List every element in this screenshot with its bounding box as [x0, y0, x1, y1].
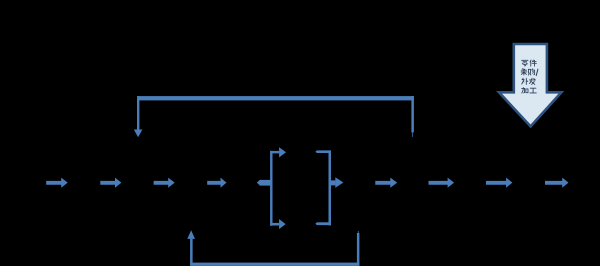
taper bottom arm [315, 222, 317, 225]
bottom feedback elbow connector [187, 230, 359, 266]
arrow A1 [46, 178, 67, 188]
big down arrow "零件采购/外发加工" [499, 44, 561, 126]
外 [522, 78, 528, 84]
arrow A7 [375, 178, 397, 188]
slash of 采购/ [536, 69, 538, 75]
arrowhead top arm [279, 147, 286, 157]
taper top arm [315, 150, 317, 153]
零 [522, 60, 528, 66]
arrow A8 [429, 178, 455, 188]
购 [528, 69, 534, 75]
采 [521, 69, 527, 75]
wire: thin tail below right vertical [411, 132, 414, 137]
wire: left vertical [137, 96, 139, 130]
arrowhead down [134, 130, 143, 138]
件 [530, 60, 536, 66]
wire: thin tip above right vertical [357, 231, 360, 233]
arrow A9 [486, 178, 512, 188]
arrow A10 [545, 178, 569, 188]
wire: left vertical [190, 239, 193, 265]
wire: top arm [270, 151, 279, 154]
工 [530, 88, 536, 93]
arrow A4 [207, 178, 226, 188]
top feedback elbow connector (rework loop) [134, 96, 414, 137]
main flow row of block arrows [46, 178, 568, 188]
wire: top horizontal [137, 96, 414, 100]
wire: bottom arm [270, 223, 279, 226]
arrowhead up [187, 230, 195, 239]
middle stub arrow pointing left [260, 180, 273, 186]
wire: vertical [329, 150, 332, 225]
wire: top arm [317, 150, 330, 153]
arrowhead bottom arm [279, 219, 286, 229]
middle arrow out (A6) [330, 180, 335, 185]
wire: bottom arm [317, 222, 330, 225]
发 [529, 78, 535, 84]
wire: vertical [270, 151, 272, 226]
wire: bottom horizontal [190, 263, 359, 266]
wire: right vertical from invisible box top [411, 96, 414, 132]
加 [522, 88, 528, 93]
merge bracket (right) [315, 150, 343, 225]
arrow A2 [100, 178, 121, 188]
text 零件 / 采购/ / 外发 / 加工 drawn as strokes [521, 60, 538, 93]
wire: right vertical from invisible box bottom [357, 233, 360, 265]
split bracket (left) [257, 147, 286, 229]
arrow A3 [154, 178, 175, 188]
